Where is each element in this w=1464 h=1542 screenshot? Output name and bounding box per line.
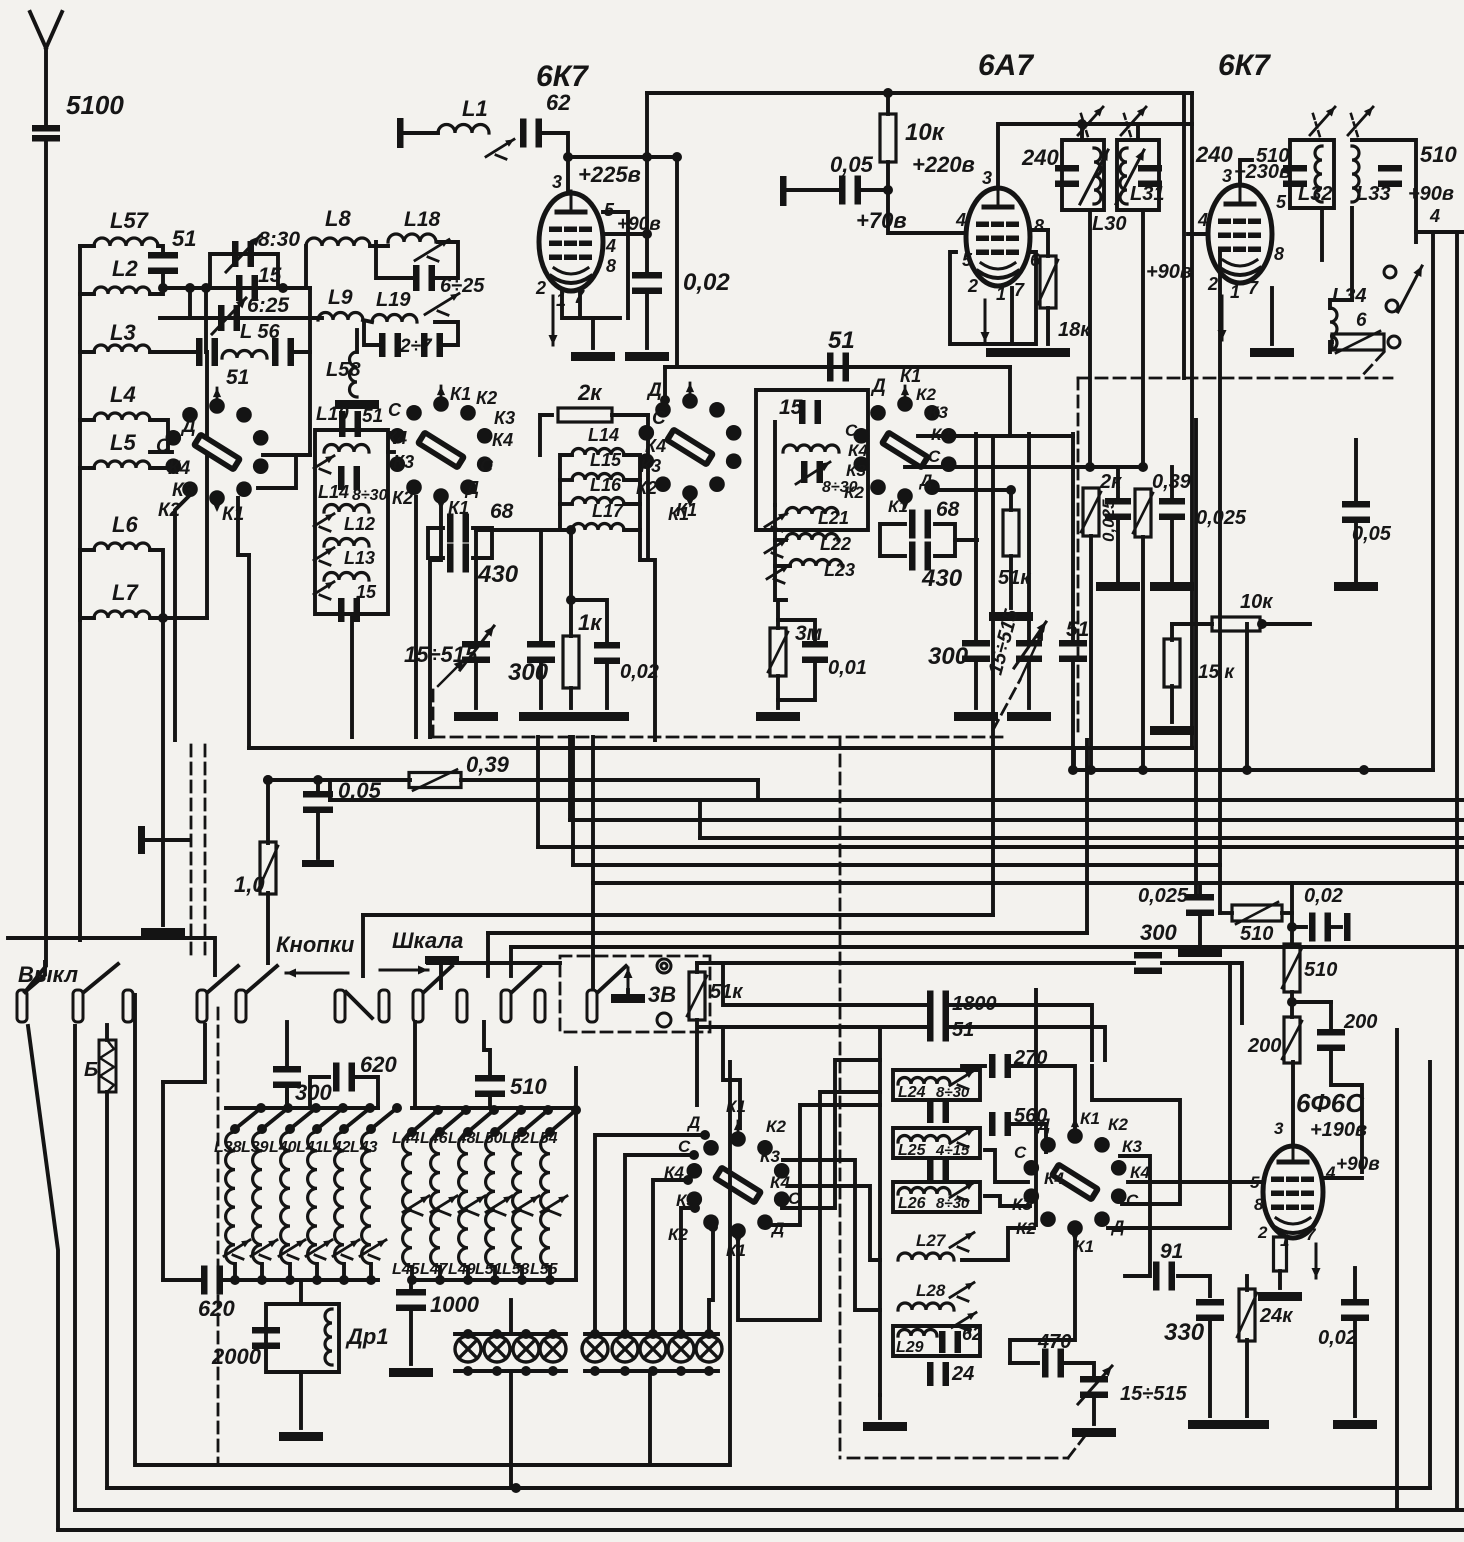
svg-text:L19: L19	[376, 289, 411, 311]
svg-text:8:30: 8:30	[258, 228, 300, 251]
coil L16	[572, 498, 624, 504]
capacitor 51 filter	[339, 411, 361, 437]
ground Dr1	[279, 1432, 323, 1441]
wire 18k stem	[1046, 230, 1050, 256]
contact dot top L46	[435, 1127, 445, 1137]
bus wire x1087 up	[1085, 740, 1089, 933]
svg-text:К1: К1	[450, 384, 471, 404]
capacitor 300 a	[527, 641, 555, 663]
contact S4 C	[689, 1150, 699, 1160]
capacitor 51 right	[1059, 640, 1087, 662]
capacitor 300 right	[1134, 952, 1162, 974]
junction 510h right	[1287, 922, 1297, 932]
capacitor 1000	[396, 1289, 426, 1311]
contact S4 K4	[683, 1175, 693, 1185]
lever contact 8	[424, 966, 452, 992]
wire 68 caps left	[880, 524, 905, 556]
coil L7	[94, 611, 150, 618]
wire L41 bottom	[315, 1264, 319, 1280]
svg-text:+220в: +220в	[912, 152, 975, 177]
svg-text:51: 51	[828, 327, 855, 354]
wire pin4 right out	[1416, 230, 1464, 234]
contact dot top L44	[407, 1127, 417, 1137]
wire left coil bus	[78, 246, 82, 620]
wire L4 right	[150, 420, 168, 452]
svg-text:К4: К4	[645, 436, 666, 456]
trimmer mark IF1b	[1121, 107, 1146, 137]
wire 620b right	[352, 1077, 378, 1108]
svg-text:0,025: 0,025	[1138, 885, 1189, 907]
vacuum tube 6K7 V1	[539, 191, 603, 291]
wire right edge vert	[1455, 232, 1459, 1510]
wire 15 box outer	[756, 390, 868, 530]
switch contact 7	[379, 990, 389, 1022]
svg-text:10к: 10к	[905, 119, 946, 146]
ground 0.025a	[1096, 582, 1140, 591]
junction lamp4 top	[548, 1329, 558, 1339]
wire S5 right d down	[1108, 963, 1230, 1228]
wire wafer6 to tube4 grid	[1128, 1180, 1262, 1184]
contact dot top L40	[285, 1124, 295, 1134]
junction y157 x645	[642, 152, 652, 162]
ground 1000	[389, 1368, 433, 1377]
wire tube1 plate right	[603, 232, 647, 236]
wire x1220 to 510h	[1218, 865, 1222, 913]
contact dot top L42	[339, 1124, 349, 1134]
wire 470 right	[1062, 1363, 1094, 1378]
svg-text:L14: L14	[318, 482, 349, 502]
trimmer L13	[314, 548, 334, 565]
wire S4 right to L27	[788, 1186, 880, 1260]
dial lamp 5	[582, 1336, 608, 1362]
trimmer L50	[486, 1196, 512, 1215]
junction 0.05 tap	[313, 775, 323, 785]
svg-text:62: 62	[962, 1324, 982, 1344]
wire S5 top k1	[1010, 1066, 1075, 1135]
svg-text:L49: L49	[448, 1261, 476, 1278]
trimmer L23	[767, 565, 789, 583]
svg-text:К1: К1	[1074, 1237, 1094, 1256]
wire left T stem	[145, 838, 190, 842]
svg-text:6Ф6С: 6Ф6С	[1296, 1088, 1365, 1118]
trimmer L44	[403, 1196, 429, 1215]
capacitor 0.01	[802, 641, 828, 663]
junction L2 row b	[185, 283, 195, 293]
contact slant L40	[290, 1108, 316, 1129]
bus bottom y1510	[75, 1508, 1464, 1512]
svg-text:0,01: 0,01	[828, 657, 867, 679]
coil L2	[94, 287, 150, 294]
wire 200 cap link	[1292, 1000, 1331, 1004]
wire lamp3 top	[524, 1334, 528, 1336]
wire L58 top	[355, 330, 359, 352]
svg-text:Д: Д	[918, 471, 932, 490]
wire bank2 bus top	[412, 1106, 576, 1110]
contact dot top L38	[230, 1124, 240, 1134]
bus wire y780 right	[461, 778, 758, 782]
wire bank1 left frame	[161, 1082, 165, 1280]
contact S4 K3	[690, 1203, 700, 1213]
svg-text:К3: К3	[1122, 1137, 1142, 1156]
coil L52	[513, 1135, 522, 1267]
capacitor 0.025 a	[1105, 498, 1131, 520]
wire 18k bottom	[1046, 308, 1050, 344]
coil L4	[94, 413, 150, 420]
junction lamp5 bottom	[590, 1366, 600, 1376]
dashed IF boundary vert	[1077, 378, 1080, 737]
junction lamp5 top	[590, 1329, 600, 1339]
resistor 0.39 coupling	[409, 770, 461, 791]
svg-text:L32: L32	[1298, 183, 1332, 205]
svg-text:L51: L51	[475, 1261, 503, 1278]
svg-text:68: 68	[490, 500, 514, 523]
cathode arrow tube1	[549, 296, 558, 345]
capacitor 300 buttons	[273, 1066, 301, 1088]
capacitor 15 filter	[338, 598, 360, 622]
box left filter	[315, 430, 388, 614]
junction bank2 bottom L48	[463, 1275, 473, 1285]
trimmer L12	[314, 514, 334, 531]
bus wire x573 up	[571, 737, 575, 865]
wire L18 box	[376, 242, 412, 278]
wire 0.02 to ground	[645, 292, 649, 348]
ground varcap b	[1007, 712, 1051, 721]
wire 0.05 to 10k	[860, 188, 888, 192]
junction bank2 bottom L46	[435, 1275, 445, 1285]
wire bank1 frame top	[163, 1025, 205, 1082]
wire L6 left	[80, 548, 94, 552]
svg-text:8: 8	[1254, 1195, 1264, 1214]
wire top bus y93	[647, 91, 1192, 95]
capacitor IF1a	[1055, 165, 1079, 187]
capacitor IF1b	[1138, 165, 1162, 187]
bus bottom y1488	[107, 1486, 1430, 1490]
capacitor 620 bank1	[201, 1266, 223, 1295]
capacitor 200	[1317, 1029, 1345, 1051]
junction y770 d	[1242, 765, 1252, 775]
trimmer mark IF2a	[1310, 107, 1335, 137]
svg-text:0,02: 0,02	[1304, 885, 1343, 907]
capacitor 270	[989, 1054, 1011, 1078]
bus wire x758 step	[756, 780, 760, 800]
svg-text:L26: L26	[898, 1195, 926, 1212]
wire y1027 row	[700, 1025, 930, 1029]
wire S1b bottom drop	[430, 497, 441, 737]
box bottom-left unit	[135, 995, 730, 1465]
svg-text:8÷30: 8÷30	[352, 487, 388, 504]
svg-text:L5: L5	[110, 430, 136, 455]
svg-text:L28: L28	[916, 1281, 946, 1300]
bus y1488 right up	[1428, 1062, 1432, 1488]
coil L26	[898, 1188, 950, 1194]
cathode arrow tube3	[1218, 296, 1227, 340]
terminal bar 0.02	[1344, 913, 1351, 941]
bus wire y947	[511, 945, 1464, 949]
svg-text:Д: Д	[646, 380, 662, 401]
wire row y436	[918, 434, 1073, 438]
svg-text:2: 2	[967, 276, 978, 296]
junction bank1 top L42	[365, 1103, 375, 1113]
svg-text:К2: К2	[844, 483, 864, 502]
terminal bar L1 input	[397, 118, 404, 148]
svg-text:Д: Д	[464, 478, 479, 498]
ground 3m	[756, 712, 800, 721]
capacitor 0.02 right	[1309, 913, 1331, 942]
wire 0.02o down	[1353, 1318, 1357, 1416]
wire L7 left	[80, 616, 94, 620]
wire bank1 bus bottom	[221, 1278, 378, 1282]
bus wire y770	[1074, 768, 1433, 772]
svg-text:L15: L15	[590, 450, 622, 470]
svg-text:Д: Д	[870, 376, 886, 397]
wire 300 top	[974, 434, 978, 644]
svg-text:К4: К4	[492, 430, 513, 450]
svg-text:510: 510	[1240, 923, 1273, 945]
dashed arrow varcap a head	[438, 660, 464, 686]
bus wire y933	[488, 931, 1087, 935]
svg-text:1: 1	[996, 284, 1006, 304]
capacitor 68 (wafer4)	[909, 510, 931, 539]
wire filter box drop	[350, 614, 354, 737]
svg-text:L45: L45	[392, 1261, 421, 1278]
trimmer L52	[513, 1196, 539, 1215]
coil L25	[898, 1136, 950, 1142]
svg-text:4: 4	[605, 236, 616, 256]
wire 0.02 cap stem	[645, 157, 649, 274]
coil L23	[790, 560, 842, 567]
junction 51k top	[1006, 485, 1016, 495]
wire 200 cap down	[1331, 1048, 1362, 1172]
wire L16 left	[560, 502, 572, 506]
arrow trimmer 6:25	[212, 298, 246, 334]
dashed arrow varcap b head	[1020, 630, 1043, 680]
wire S5 left k3	[985, 1196, 1030, 1206]
wire x648 drop	[646, 415, 650, 560]
rotary switch wafer S4	[687, 1121, 790, 1245]
dashed vertical x840	[839, 737, 842, 1458]
junction bank1 top L41	[338, 1103, 348, 1113]
svg-text:430: 430	[921, 565, 963, 592]
svg-text:5100: 5100	[66, 90, 124, 120]
wire S1 to x310	[263, 453, 310, 457]
svg-text:К1: К1	[900, 366, 921, 386]
ground 330	[1188, 1420, 1232, 1429]
wire 2k right	[612, 413, 648, 417]
capacitor 2000	[252, 1327, 280, 1349]
antenna lead-in	[44, 46, 48, 124]
wire bank1 bus top	[226, 1106, 378, 1110]
wire 0.02a down	[605, 660, 609, 708]
resistor 200 plate	[1282, 1017, 1302, 1063]
coil L14	[572, 449, 624, 456]
svg-text:К2: К2	[916, 385, 936, 404]
bus wire x570 up	[568, 737, 572, 820]
wire lamps1 bus top	[455, 1332, 566, 1336]
wire tube1 pins down	[562, 291, 620, 318]
wire L14-17 left bus	[560, 455, 572, 530]
svg-text:0,39: 0,39	[466, 752, 510, 777]
junction 200 top	[1287, 997, 1297, 1007]
svg-text:К4: К4	[848, 441, 868, 460]
capacitor 51 (L57/L2)	[148, 252, 178, 274]
wire S1 bottom lead	[175, 495, 190, 740]
svg-text:3: 3	[552, 172, 562, 192]
junction wafer3 D	[660, 395, 670, 405]
wire 0.025a gnd	[1116, 516, 1120, 580]
svg-text:240: 240	[1021, 145, 1059, 170]
coil L15	[572, 474, 624, 481]
svg-text:К3: К3	[760, 1147, 780, 1166]
svg-text:6К7: 6К7	[1218, 49, 1271, 82]
capacitor 300 mid	[962, 640, 990, 662]
fuse B	[99, 1040, 116, 1092]
contact dot top L41	[312, 1124, 322, 1134]
wire varcap a top	[474, 530, 478, 645]
junction L2 row d	[278, 283, 288, 293]
wire IF2 bottoms	[1320, 208, 1324, 260]
ground 24k	[1225, 1420, 1269, 1429]
trimmer L22	[765, 539, 787, 557]
junction lamp7 top	[648, 1329, 658, 1339]
wire IF1b top	[1136, 124, 1140, 140]
wire 0.025b stem	[1170, 467, 1174, 502]
wire L4 left	[80, 418, 94, 422]
wire L15 left	[560, 478, 572, 482]
coil L58	[350, 352, 357, 397]
capacitor 15 in box	[799, 400, 821, 424]
junction bank1 bottom L39	[257, 1275, 267, 1285]
svg-text:7: 7	[1306, 1225, 1317, 1244]
trimmer L21	[765, 513, 787, 531]
capacitor 68b (wafer4)	[909, 542, 931, 571]
resistor 51k dial	[687, 972, 707, 1020]
trimmer L25	[950, 1129, 974, 1147]
terminal bar left T	[138, 826, 145, 854]
wire L54 bottom	[548, 1267, 552, 1280]
wire 510v bottom	[1290, 992, 1294, 1002]
trimmer L11	[314, 456, 334, 473]
wire S4 K3 to lamp	[681, 1208, 695, 1334]
jack circle c	[1388, 336, 1400, 348]
svg-text:6К7: 6К7	[536, 60, 589, 93]
coil L41	[308, 1132, 317, 1264]
cathode arrow tube4	[1312, 1244, 1321, 1278]
wire x1192 vertical	[1190, 93, 1194, 748]
wire x665 drop to wafer3 D	[663, 367, 667, 400]
contact dot top L50	[490, 1127, 500, 1137]
bus wire x511 down	[509, 947, 513, 976]
svg-text:1000: 1000	[430, 1292, 480, 1317]
junction x677 top	[672, 152, 682, 162]
cathode arrow tube2	[981, 300, 990, 342]
svg-text:L7: L7	[112, 580, 139, 605]
coil L21	[786, 508, 838, 514]
wire L8 right	[370, 244, 388, 248]
svg-text:+225в: +225в	[578, 162, 641, 187]
svg-text:62: 62	[546, 90, 571, 115]
coil L31	[1120, 148, 1127, 204]
svg-text:68: 68	[936, 498, 960, 521]
wire S5 bottom k1	[1010, 1229, 1075, 1363]
ground L24 column	[863, 1422, 907, 1431]
bus wire y780 with 0.39	[268, 778, 410, 782]
contact slant L44	[412, 1110, 438, 1132]
coil L38	[226, 1132, 235, 1264]
wire bank2 riser	[413, 1022, 417, 1108]
capacitor 8:30 filter	[338, 466, 360, 490]
wire 51 vert	[1071, 434, 1075, 644]
capacitor 68 tube1col b	[447, 544, 469, 573]
variable capacitor 15:515 c	[1080, 1376, 1108, 1398]
svg-text:L33: L33	[1356, 183, 1390, 205]
trimmer mark IF2b	[1348, 107, 1373, 137]
svg-text:L4: L4	[110, 382, 136, 407]
wire L14-17 right bus	[624, 455, 640, 530]
svg-text:L17: L17	[592, 501, 624, 521]
wire IF1 tops	[1080, 124, 1084, 140]
rotary switch wafer S1	[166, 388, 269, 512]
wire 10k top	[886, 93, 890, 114]
wire 0.01 top	[778, 620, 815, 645]
trimmer L24	[950, 1071, 974, 1089]
wire x206 drop	[204, 288, 208, 352]
arrow L30 slash	[1080, 150, 1108, 204]
wire S1 lower contact	[258, 455, 296, 488]
svg-text:К3: К3	[393, 452, 414, 472]
junction 1.0 top	[263, 775, 273, 785]
wire IF1 box a	[1062, 140, 1104, 210]
wire L24 col bottom	[878, 1395, 882, 1418]
capacitor right of L56	[272, 338, 294, 366]
junction lamp6 top	[620, 1329, 630, 1339]
junction lamp8 top	[676, 1329, 686, 1339]
trimmer switch L19	[425, 293, 459, 315]
contact slant L42	[344, 1108, 370, 1129]
wire 1000 top	[409, 1280, 413, 1293]
junction y467 x1143	[1138, 462, 1148, 472]
coil L20	[783, 445, 839, 452]
contact slant L39	[262, 1108, 288, 1129]
wire x310 vertical	[308, 288, 312, 455]
dial lamp 4	[540, 1336, 566, 1362]
contact slant L50	[495, 1110, 521, 1132]
coil L3	[94, 345, 150, 352]
wire x190 drop	[188, 288, 192, 318]
wire filter to wafer	[388, 450, 394, 454]
wire 70v to tube2	[888, 190, 966, 233]
trimmer capacitor 8:30	[232, 241, 254, 267]
wire 1.0 bottom	[266, 893, 270, 963]
wire lamps1 down	[509, 1371, 513, 1488]
wire x1036 long	[1034, 990, 1038, 1225]
wire IF2 box a	[1290, 140, 1334, 208]
coil L13b	[324, 573, 369, 581]
trimmer L13b	[314, 582, 334, 599]
coil L11	[324, 445, 369, 452]
wire S4 right D nest	[763, 1105, 880, 1225]
wire 51k dial bottom	[695, 1020, 699, 1105]
bus wire y963	[428, 961, 560, 965]
wire L16 right	[624, 502, 640, 506]
ground 51k mid	[989, 612, 1033, 621]
wire 15k top	[1170, 624, 1174, 640]
box L24	[893, 1070, 980, 1100]
contact dot top L39	[257, 1124, 267, 1134]
svg-text:2: 2	[535, 278, 546, 298]
wire L57 right to cap	[158, 246, 163, 256]
wire 0.39 down	[1141, 537, 1145, 770]
ground varcap a	[454, 712, 498, 721]
